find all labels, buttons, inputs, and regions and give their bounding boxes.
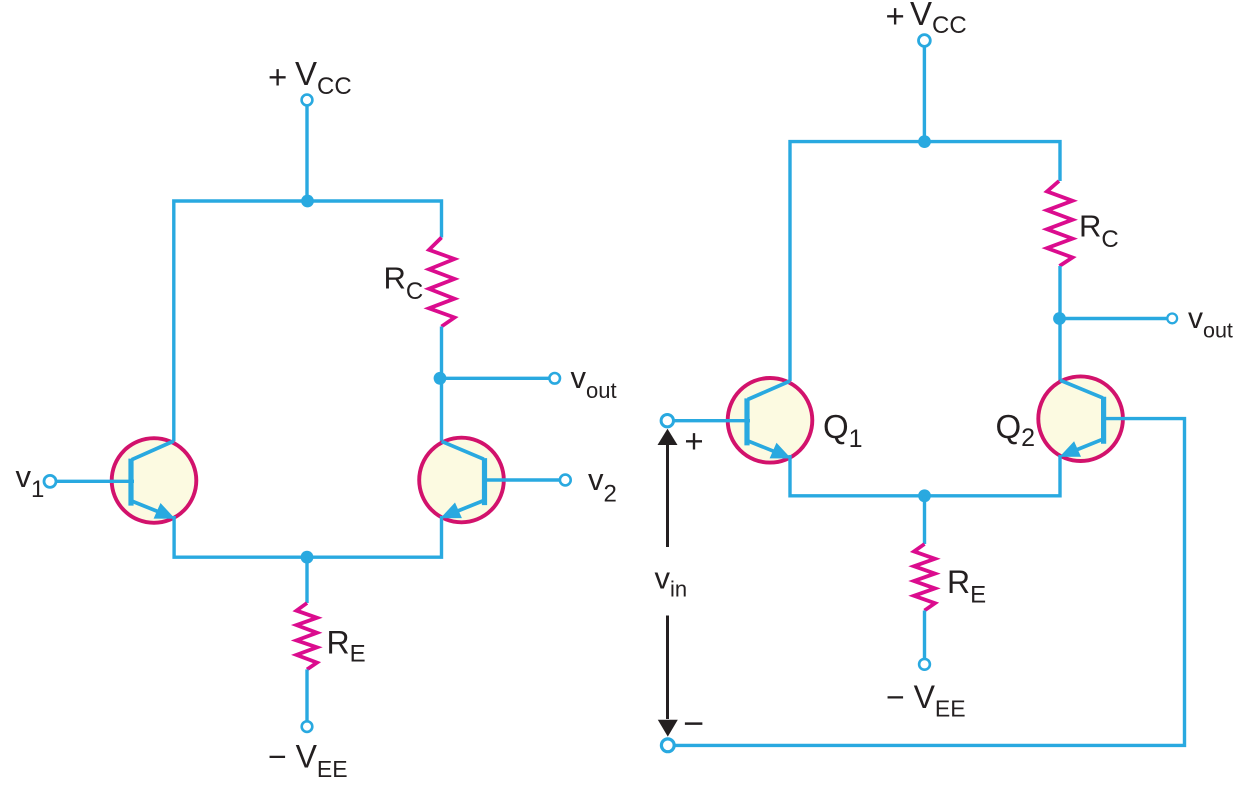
vin arrow upper line	[666, 444, 669, 548]
resistor RE (left)	[297, 603, 318, 669]
svg-text:VCC: VCC	[910, 0, 967, 39]
terminal +VCC (right)	[919, 35, 931, 47]
svg-text:RE: RE	[327, 625, 366, 668]
transistor left T1	[112, 438, 197, 523]
wire top rail with collector branches (left)	[174, 201, 442, 441]
wire VCC stem (right)	[923, 46, 926, 142]
Q2 collector line	[1060, 380, 1103, 398]
T1 emitter line	[132, 501, 160, 512]
wire RE stem bottom (left)	[305, 669, 308, 721]
Q2 base bar	[1101, 397, 1106, 444]
terminal vout (right)	[1167, 314, 1177, 324]
wire RC to collector Q right (left)	[440, 327, 443, 442]
transistor Q2	[1038, 376, 1123, 461]
terminal vout (left)	[549, 373, 560, 384]
svg-text:Q1: Q1	[823, 408, 863, 453]
wire v1 input	[56, 480, 134, 483]
terminal -VEE (left)	[302, 721, 313, 732]
terminal -VEE (right)	[919, 659, 930, 670]
T2 collector line	[442, 441, 484, 459]
Q1 circle	[728, 378, 813, 463]
Q1 base bar	[744, 398, 749, 445]
svg-text:− VEE: − VEE	[268, 739, 348, 782]
Q1 collector line	[748, 381, 790, 400]
Q1 emitter arrow	[770, 443, 792, 459]
wire RC to collector Q2	[1058, 266, 1061, 381]
wire top rail with collector branches (right)	[790, 142, 1060, 381]
vin arrow up head	[658, 429, 678, 445]
Q2 emitter arrow	[1060, 441, 1082, 457]
wire vout (right)	[1060, 317, 1168, 320]
terminal +VCC (left)	[302, 95, 313, 106]
transistor Q1	[728, 378, 813, 463]
transistor left T2	[419, 438, 504, 523]
wire Q2 base loop to bottom	[674, 419, 1185, 746]
Q1 emitter line	[748, 441, 776, 452]
svg-text:− VEE: − VEE	[886, 679, 966, 722]
svg-text:v1: v1	[16, 459, 45, 503]
vin arrow lower line	[666, 616, 669, 720]
svg-text:v2: v2	[588, 462, 617, 508]
resistor RC (right)	[1047, 181, 1073, 266]
wire emitter rail (right)	[790, 455, 1060, 496]
svg-text:+: +	[684, 423, 703, 460]
T1 circle	[112, 438, 197, 523]
terminal vin plus	[661, 415, 673, 427]
svg-text:RC: RC	[384, 261, 424, 305]
svg-text:RC: RC	[1079, 209, 1119, 253]
T1 collector line	[132, 441, 174, 460]
Q2 emitter line	[1075, 439, 1103, 450]
junction emitter rail (left)	[301, 551, 314, 564]
svg-text:vout: vout	[571, 360, 617, 403]
wire RE stem top (right)	[923, 496, 926, 544]
junction emitter rail (right)	[918, 489, 931, 502]
T2 emitter line	[456, 501, 484, 512]
T2 base bar	[482, 458, 487, 505]
terminal v2	[560, 475, 571, 486]
svg-text:+: +	[886, 0, 905, 34]
T1 emitter arrow	[154, 503, 176, 519]
Q2 circle	[1038, 376, 1123, 461]
junction vout (left)	[434, 372, 447, 385]
resistor RE (right)	[914, 544, 935, 611]
wire v2 input	[484, 478, 560, 481]
vin arrow down head	[658, 720, 678, 737]
junction VCC rail (right)	[918, 135, 931, 148]
T2 circle	[419, 438, 504, 523]
wire Q1 base input	[674, 419, 751, 422]
svg-text:RE: RE	[947, 564, 986, 609]
T2 emitter arrow	[440, 503, 462, 519]
wire vout (left)	[442, 377, 550, 380]
T1 base bar	[128, 459, 133, 506]
svg-text:Q2: Q2	[996, 408, 1036, 452]
svg-text:−: −	[683, 703, 704, 744]
wire RE stem top (left)	[305, 557, 308, 603]
resistor RC (left)	[429, 238, 455, 327]
wire emitter rail (left)	[174, 516, 441, 557]
svg-text:VCC: VCC	[295, 55, 352, 100]
svg-text:vout: vout	[1188, 302, 1233, 343]
svg-text:vin: vin	[655, 561, 688, 602]
junction vout (right)	[1053, 312, 1066, 325]
wire VCC stem (left)	[305, 106, 308, 201]
terminal vin minus	[661, 739, 674, 752]
wire RE stem bottom (right)	[923, 611, 926, 659]
terminal v1	[44, 475, 56, 487]
junction VCC rail (left)	[301, 195, 314, 208]
svg-text:+: +	[268, 58, 287, 95]
